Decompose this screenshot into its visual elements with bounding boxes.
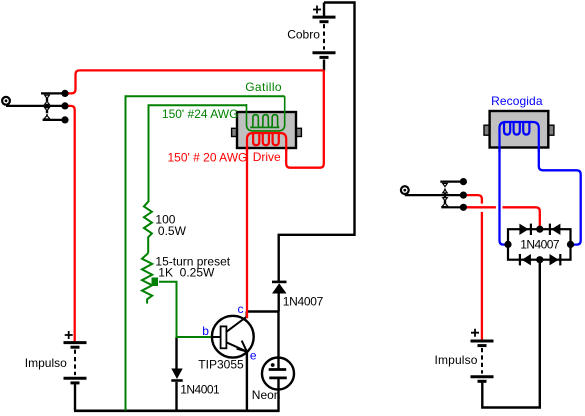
svg-text:Gatillo: Gatillo	[245, 80, 282, 94]
svg-text:b: b	[202, 324, 209, 338]
svg-text:TIP3055: TIP3055	[198, 357, 244, 371]
svg-text:Drive: Drive	[253, 150, 281, 164]
svg-text:Cobro: Cobro	[287, 28, 320, 42]
svg-text:1N4007: 1N4007	[283, 295, 324, 309]
svg-text:0.5W: 0.5W	[158, 224, 187, 238]
svg-text:1K 0.25W: 1K 0.25W	[158, 265, 215, 279]
svg-text:Neon: Neon	[252, 388, 281, 402]
svg-text:150' #24 AWG: 150' #24 AWG	[162, 107, 239, 121]
svg-text:e: e	[250, 348, 257, 362]
svg-text:Impulso: Impulso	[25, 356, 67, 370]
svg-text:Impulso: Impulso	[435, 353, 478, 367]
svg-text:c: c	[238, 302, 244, 316]
svg-text:150' # 20 AWG: 150' # 20 AWG	[168, 150, 248, 164]
svg-text:1N4001: 1N4001	[180, 383, 220, 397]
svg-text:Recogida: Recogida	[491, 94, 543, 108]
svg-text:1N4007: 1N4007	[520, 238, 560, 252]
